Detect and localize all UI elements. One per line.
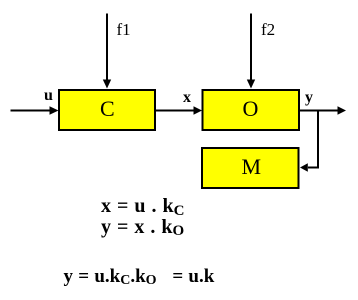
wire f1 arrow into C xyxy=(106,14,108,82)
block letter O xyxy=(243,98,259,120)
wire input u into C xyxy=(11,110,51,112)
block C xyxy=(59,90,155,130)
equation line 2 xyxy=(101,217,184,237)
wire feedback from y line down into M xyxy=(308,111,318,168)
block O xyxy=(203,90,300,130)
wire x from C to O xyxy=(156,110,194,112)
label u xyxy=(44,88,53,104)
label x xyxy=(183,90,191,106)
wire f2 arrow into O xyxy=(250,14,252,82)
equation line 3 xyxy=(64,267,215,286)
label f2 xyxy=(261,21,275,38)
label y xyxy=(305,90,313,106)
block letter M xyxy=(242,156,262,178)
block letter C xyxy=(100,98,115,120)
block M xyxy=(202,148,299,188)
wire y output from O xyxy=(300,110,338,112)
label f1 xyxy=(117,21,131,38)
equation line 1 xyxy=(101,196,185,216)
